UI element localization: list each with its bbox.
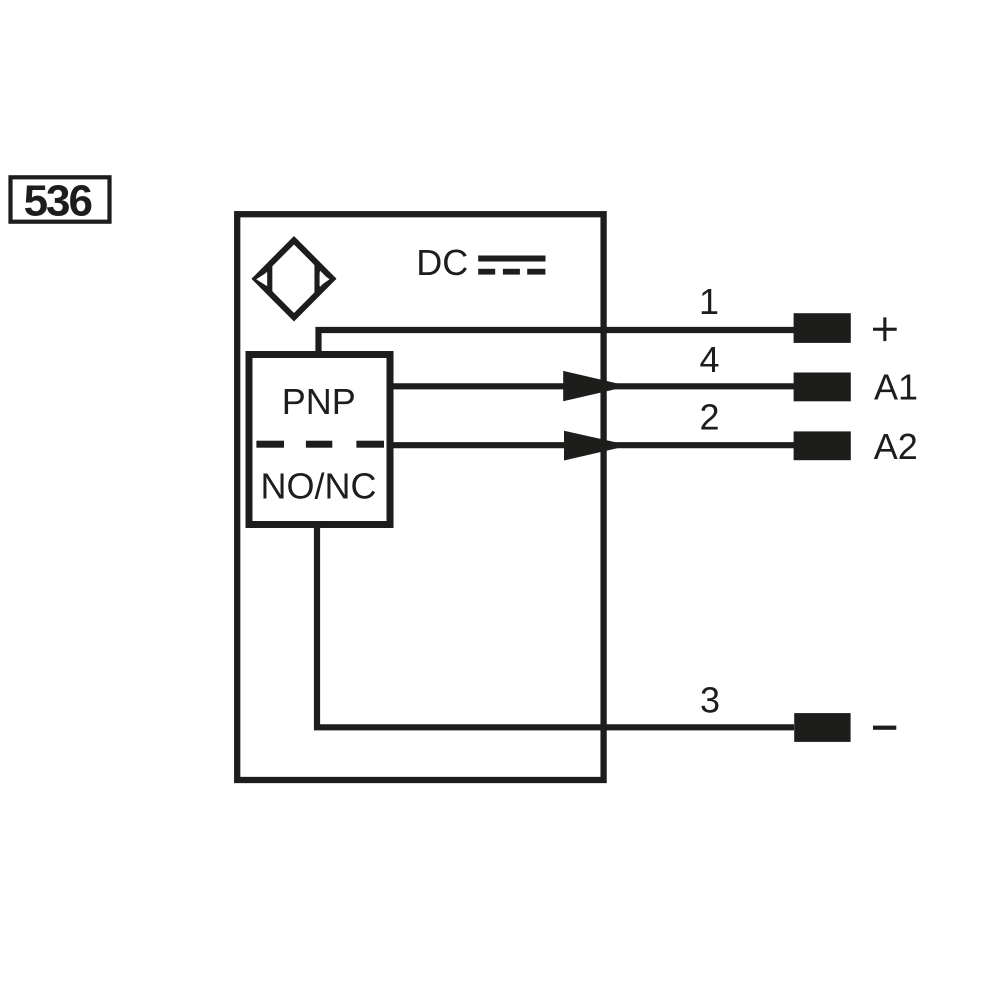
terminal pad 2 <box>794 431 851 460</box>
plus terminal label <box>873 328 897 331</box>
wire 3 (supply -) <box>317 521 794 727</box>
svg-text:A1: A1 <box>874 367 918 408</box>
terminal pad 3 <box>794 713 850 742</box>
small right triangle (white notch) <box>320 272 330 286</box>
minus terminal label <box>873 726 896 730</box>
figure number box 536 <box>11 177 110 221</box>
arrow on wire 2 <box>564 431 630 461</box>
small left triangle (white notch) <box>256 272 267 286</box>
arrow on wire 4 <box>563 371 629 401</box>
terminal pad 4 <box>794 373 851 402</box>
sensor body outline <box>237 214 603 780</box>
svg-text:A2: A2 <box>874 426 918 467</box>
svg-text:1: 1 <box>699 281 719 322</box>
terminal pad 1 <box>794 313 851 343</box>
proximity sensor symbol: diamond <box>256 240 333 317</box>
svg-text:PNP: PNP <box>282 381 356 422</box>
diamond right chord <box>314 263 320 295</box>
svg-text:2: 2 <box>699 397 719 438</box>
svg-text:536: 536 <box>24 177 92 226</box>
svg-text:NO/NC: NO/NC <box>261 465 377 506</box>
dashed divider inside block <box>256 441 284 448</box>
wire 4 (output A1) <box>390 383 794 389</box>
DC symbol solid bar <box>478 256 545 262</box>
svg-text:3: 3 <box>700 680 720 721</box>
wire 1 (supply +) <box>319 330 795 356</box>
diamond left chord <box>267 264 273 295</box>
output block PNP/NO-NC <box>249 355 390 525</box>
DC symbol dashed bar <box>478 269 495 275</box>
svg-text:4: 4 <box>699 339 719 380</box>
wire 2 (output A2) <box>390 442 794 448</box>
svg-text:DC: DC <box>416 242 468 283</box>
